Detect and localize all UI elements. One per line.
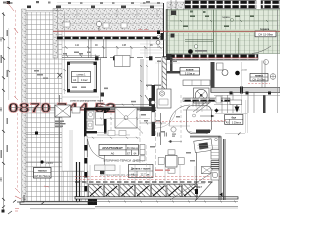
svg-text:39.34кв.м: 39.34кв.м — [127, 147, 138, 150]
svg-text:ЕТ: ЕТ — [127, 152, 131, 155]
svg-text:АПАРТАМЕНТ: АПАРТАМЕНТ — [102, 146, 123, 150]
svg-text:380: 380 — [0, 107, 3, 112]
svg-text:0.1м2: 0.1м2 — [81, 79, 88, 82]
svg-text:5.10кв.м: 5.10кв.м — [185, 73, 195, 76]
svg-text:420: 420 — [0, 37, 3, 42]
svg-text:Дневна + кухня: Дневна + кухня — [131, 166, 151, 170]
svg-text:тераса: тераса — [38, 169, 47, 172]
svg-text:схема за разпределение терен: схема за разпределение терен — [70, 101, 104, 103]
svg-text:СН 15-08кв: СН 15-08кв — [252, 78, 266, 81]
svg-text:142: 142 — [75, 44, 80, 47]
svg-text:ВТОРИЧНО-ТЕРАСИ -ДНЕВНА: ВТОРИЧНО-ТЕРАСИ -ДНЕВНА — [104, 158, 145, 162]
svg-text:0870 тераси дневна кота +3.04: 0870 тераси дневна кота +3.04 терен — [100, 174, 139, 176]
svg-text:290: 290 — [0, 177, 3, 182]
svg-text:тераса: тераса — [260, 27, 270, 31]
svg-text:+3.04: +3.04 — [46, 161, 53, 165]
svg-text:МЕТ: МЕТ — [197, 186, 203, 189]
svg-text:3.20кв.м: 3.20кв.м — [232, 122, 242, 125]
svg-text:А0: А0 — [111, 151, 115, 155]
svg-text:бал: бал — [231, 115, 236, 119]
svg-text:тераса: тераса — [222, 16, 230, 19]
svg-text:СН 15-08кв: СН 15-08кв — [258, 33, 273, 37]
svg-text:кухня: кухня — [186, 68, 194, 71]
svg-text:138: 138 — [122, 44, 127, 47]
svg-text:+0.04: +0.04 — [241, 70, 247, 72]
svg-text:АИ 39.73кв.м: АИ 39.73кв.м — [34, 174, 50, 178]
svg-text:схема 1: схема 1 — [76, 74, 86, 77]
